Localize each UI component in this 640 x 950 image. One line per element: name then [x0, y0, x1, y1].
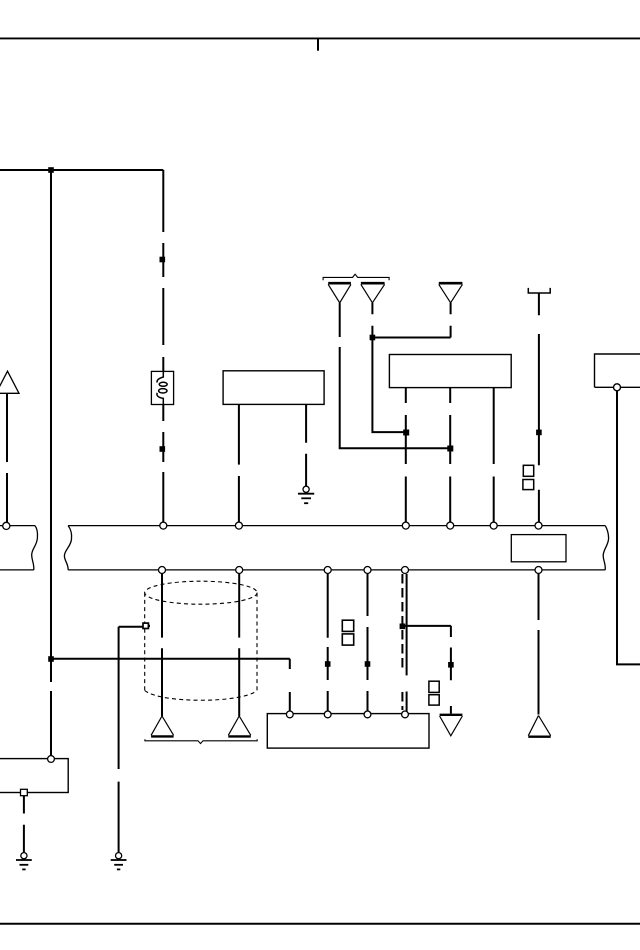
brace over power triangles	[323, 274, 389, 280]
connector band main top line	[68, 525, 605, 527]
control unit U2 box	[389, 355, 511, 388]
wire P2 stem	[371, 303, 373, 338]
coil L1 winding	[157, 371, 163, 382]
splice marker S2	[160, 446, 166, 452]
pin circle U3	[614, 384, 621, 391]
ground triangle GT1	[151, 716, 174, 735]
wire P1 stem	[340, 303, 451, 448]
power triangle P1	[328, 282, 351, 285]
pin circle U5	[48, 756, 55, 763]
wire vertical x451	[450, 626, 452, 714]
splice marker S3	[536, 430, 542, 436]
top frame line	[0, 37, 640, 39]
wire U1 pin1 x239	[238, 404, 240, 522]
power triangle P2	[361, 282, 385, 285]
splice marker S6	[365, 661, 371, 667]
wire vertical x290	[289, 659, 291, 711]
ground triangle GT3	[528, 716, 550, 736]
ground G1	[303, 486, 309, 492]
shield terminal T symbol	[528, 288, 550, 293]
connector label box	[511, 535, 566, 562]
connector band main bottom line	[68, 569, 605, 571]
wire U5 to ground	[23, 796, 25, 853]
wire U1 pin2 x306	[305, 404, 307, 486]
connector arrow A (up triangle)	[0, 371, 19, 393]
wire U2 pin1 x406	[405, 388, 407, 523]
option box pair B3	[429, 681, 439, 692]
option box pair B1	[523, 465, 533, 476]
wire vertical x51	[50, 170, 52, 756]
wire shield drain x118	[119, 627, 144, 853]
pin circles top row	[160, 522, 167, 529]
connector band right torn edge	[603, 526, 608, 570]
wire horizontal y626	[402, 625, 451, 627]
splice marker S7	[448, 662, 454, 668]
sensor U5 box	[0, 759, 68, 793]
connector triangle P4 (down)	[440, 714, 463, 716]
wire arrow A stem	[6, 393, 8, 522]
wire ground lead x538	[538, 574, 540, 715]
ground group brace	[145, 739, 257, 743]
bottom frame line	[0, 923, 640, 925]
power triangle P3	[439, 282, 463, 285]
wire solid x407	[406, 574, 408, 711]
wire U2 pin2 x450	[449, 388, 451, 523]
junction J4	[370, 335, 376, 341]
connector band left piece	[0, 525, 35, 527]
pin circles bottom row	[159, 567, 166, 574]
frame tick mark	[317, 38, 319, 50]
splice marker S5	[325, 661, 331, 667]
wire dashed variant x402	[401, 574, 403, 672]
wire vertical x163 upper	[162, 170, 164, 371]
wire horizontal y659	[51, 658, 290, 660]
splice marker S4 (open pin)	[143, 623, 148, 628]
junction J6	[400, 624, 406, 630]
junction J2	[48, 656, 54, 662]
wire P3 stem	[450, 303, 452, 338]
coil L1 box	[151, 371, 173, 404]
option box pair B2	[342, 620, 353, 631]
wire T stem	[538, 293, 540, 522]
relay U1 box	[223, 371, 324, 405]
junction J3	[447, 446, 453, 452]
junction J1	[48, 167, 54, 173]
ground G2	[116, 853, 122, 859]
pin circles U4	[286, 711, 293, 718]
amplifier U4 box	[267, 714, 429, 749]
wire vertical x163 lower	[162, 405, 164, 523]
ground G3	[21, 853, 27, 859]
wire P2 to node	[372, 338, 405, 433]
wire x328	[327, 574, 329, 712]
connector band left torn edge	[64, 526, 71, 570]
radio unit U3 box	[595, 354, 640, 387]
ground triangle GT2	[228, 716, 251, 735]
wire P3 to P2 node	[372, 337, 450, 339]
wire shield lead x239	[238, 574, 240, 716]
wire x617 to page edge	[616, 391, 640, 665]
pin circle arrow A	[3, 522, 10, 529]
wire x367	[367, 574, 369, 712]
wire U2 pin3 x494	[493, 388, 495, 523]
wire shield lead x162	[161, 574, 163, 716]
pin square U5	[21, 789, 28, 795]
wire horizontal top y170	[0, 169, 163, 171]
splice marker S1	[160, 257, 166, 263]
junction J5	[403, 430, 409, 436]
shielded cable dashed cylinder	[145, 581, 257, 604]
